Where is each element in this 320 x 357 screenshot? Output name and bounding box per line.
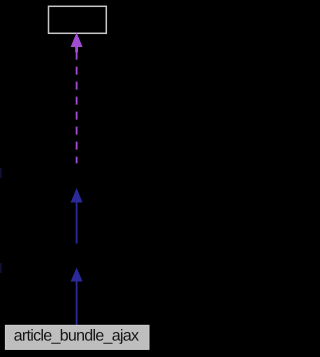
arrowhead purple bbox=[71, 33, 83, 53]
shaft blue 2 bbox=[76, 281, 78, 326]
clipped neighbor edge tick left lower bbox=[0, 263, 2, 273]
inheritance arrow 2 (solid, navy) bbox=[71, 268, 83, 326]
main node box article_bundle_ajax bbox=[6, 325, 149, 349]
dashed shaft purple bbox=[76, 52, 78, 164]
arrowhead blue 1 bbox=[71, 188, 83, 203]
arrowhead blue 2 bbox=[71, 268, 83, 282]
clipped neighbor edge tick left upper bbox=[0, 168, 2, 178]
template relation arrow (dashed, darkorchid) bbox=[71, 33, 83, 164]
inheritance arrow 1 (solid, navy) bbox=[71, 188, 83, 244]
node box top (empty class node) bbox=[49, 6, 107, 33]
label article_bundle_ajax bbox=[14, 329, 138, 344]
shaft blue 1 bbox=[76, 202, 78, 244]
